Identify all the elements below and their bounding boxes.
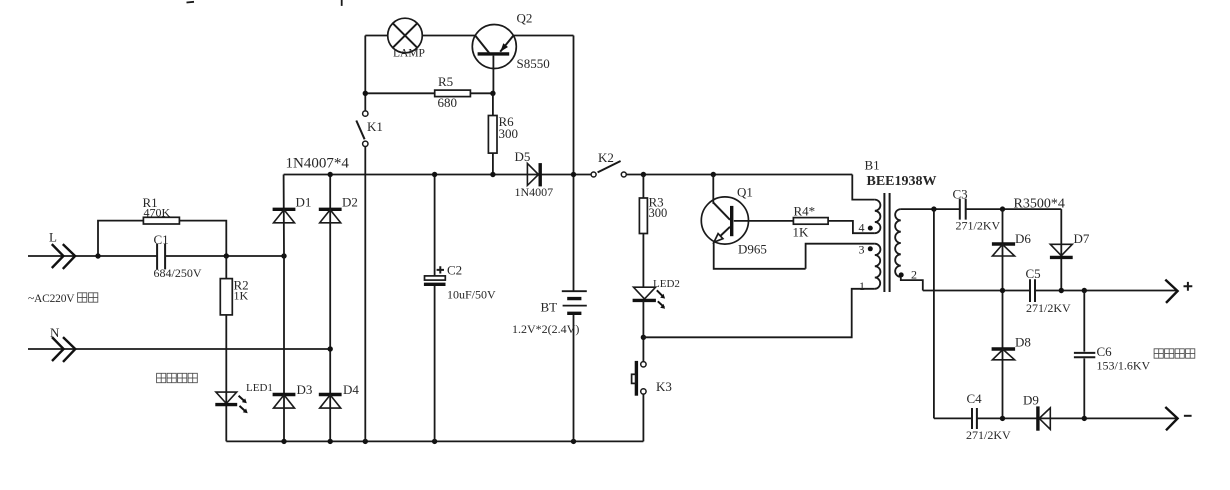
wire LED2 to K3 bbox=[642, 300, 644, 361]
svg-text:C6: C6 bbox=[1097, 344, 1113, 359]
node LED2 bottom junction bbox=[641, 335, 646, 340]
node left vertical top junction bbox=[931, 206, 936, 211]
wire right-left vertical bbox=[933, 209, 935, 418]
svg-text:3: 3 bbox=[859, 243, 865, 257]
svg-text:D5: D5 bbox=[515, 149, 531, 164]
diode D1 bbox=[273, 209, 296, 223]
svg-text:D6: D6 bbox=[1015, 231, 1031, 246]
node Q1 collector junction bbox=[711, 172, 716, 177]
stray mark top left bbox=[187, 1, 195, 4]
wire plus output line bbox=[923, 290, 1177, 292]
diode D5 bbox=[527, 163, 540, 186]
node R3 top junction bbox=[641, 172, 646, 177]
svg-text:1N4007*4: 1N4007*4 bbox=[286, 156, 350, 172]
node K1 bottom junction bbox=[363, 439, 368, 444]
svg-text:C3: C3 bbox=[953, 187, 968, 202]
diode D6 bbox=[992, 244, 1015, 256]
capacitor C6 bbox=[1074, 291, 1095, 419]
terminal L arrow bbox=[52, 244, 75, 269]
label minus sign bbox=[1184, 415, 1192, 417]
transformer B1 primary winding upper bbox=[875, 200, 881, 234]
resistor R4 bbox=[793, 218, 828, 225]
wire minus output line bbox=[934, 417, 1177, 419]
wire R1 branch bbox=[98, 221, 226, 256]
svg-text:D4: D4 bbox=[343, 382, 359, 397]
svg-text:153/1.6KV: 153/1.6KV bbox=[1097, 359, 1151, 373]
svg-text:470K: 470K bbox=[144, 206, 171, 220]
capacitor C2 bbox=[424, 175, 446, 442]
svg-text:C1: C1 bbox=[154, 232, 169, 247]
transformer B1 core bbox=[884, 193, 889, 292]
wire D7 vertical bbox=[1060, 209, 1062, 290]
node R6 bottom junction bbox=[490, 172, 495, 177]
capacitor C4 bbox=[972, 408, 977, 429]
wire K3 bottom bbox=[642, 394, 644, 441]
wire battery vertical bbox=[573, 36, 575, 442]
transformer B1 secondary winding bbox=[895, 209, 901, 277]
svg-text:C5: C5 bbox=[1026, 266, 1041, 281]
wire Q1 base to R4 bbox=[734, 220, 794, 222]
svg-text:271/2KV: 271/2KV bbox=[1026, 301, 1071, 315]
resistor R5 bbox=[435, 90, 471, 97]
label 高压输出 bbox=[1154, 349, 1195, 358]
wire K1 upper vertical bbox=[364, 36, 366, 112]
node R5 left junction bbox=[363, 91, 368, 96]
svg-text:1K: 1K bbox=[234, 289, 249, 303]
svg-text:BT: BT bbox=[541, 300, 558, 315]
svg-text:L: L bbox=[49, 230, 57, 245]
resistor R3 bbox=[639, 175, 647, 288]
wire D1-D3 vertical bbox=[283, 175, 285, 442]
svg-text:4: 4 bbox=[859, 221, 865, 235]
node D6 top junction bbox=[1000, 206, 1005, 211]
diode D7 bbox=[1050, 244, 1073, 257]
diode D4 bbox=[319, 395, 342, 409]
node D6 bottom junction bbox=[1000, 288, 1005, 293]
svg-text:1N4007: 1N4007 bbox=[515, 185, 554, 199]
node L-C1 junction bbox=[95, 253, 100, 258]
stray mark top middle bbox=[341, 0, 343, 6]
svg-text:BEE1938W: BEE1938W bbox=[867, 174, 937, 189]
wire D6-D8 vertical bbox=[1002, 209, 1004, 418]
node Q2 base junction bbox=[490, 91, 495, 96]
wire D2-D4 vertical bbox=[329, 175, 331, 442]
diode D3 bbox=[273, 395, 296, 409]
wire top lamp line bbox=[365, 35, 573, 37]
resistor R6 bbox=[488, 93, 497, 174]
svg-text:K1: K1 bbox=[367, 119, 383, 134]
wire R4 to pin4 bbox=[828, 221, 875, 233]
pin 2 polarity dot bbox=[899, 272, 904, 277]
svg-text:1K: 1K bbox=[793, 225, 810, 240]
capacitor C3 bbox=[960, 199, 966, 220]
resistor R2 bbox=[220, 279, 232, 315]
label 充电部分 bbox=[157, 373, 198, 382]
svg-text:S8550: S8550 bbox=[517, 56, 550, 71]
node C6 bottom junction bbox=[1082, 416, 1087, 421]
node C1-R2 junction bbox=[224, 253, 229, 258]
svg-text:D9: D9 bbox=[1023, 393, 1039, 408]
wire K1 lower vertical bbox=[364, 146, 366, 441]
svg-text:271/2KV: 271/2KV bbox=[956, 219, 1001, 233]
terminal plus arrow bbox=[1165, 280, 1177, 303]
node C2 bottom junction bbox=[432, 439, 437, 444]
wire N input line bbox=[28, 348, 330, 350]
svg-text:680: 680 bbox=[438, 95, 458, 110]
svg-text:Q1: Q1 bbox=[737, 185, 753, 200]
wire top bus corner to pin top bbox=[852, 175, 875, 200]
wire bottom bus bbox=[226, 440, 643, 442]
node L-D1 junction bbox=[281, 253, 286, 258]
svg-text:D8: D8 bbox=[1015, 335, 1031, 350]
pin 4 polarity dot bbox=[868, 226, 873, 231]
svg-text:LED2: LED2 bbox=[653, 278, 680, 290]
node C6 top junction bbox=[1082, 288, 1087, 293]
svg-text:R4*: R4* bbox=[794, 204, 816, 219]
pin 3 polarity dot bbox=[868, 246, 873, 251]
svg-text:K2: K2 bbox=[598, 150, 614, 165]
label plus sign bbox=[1184, 282, 1193, 291]
resistor R1 bbox=[143, 217, 179, 224]
wire L input line bbox=[28, 255, 284, 257]
svg-text:R5: R5 bbox=[438, 74, 453, 89]
LED LED2 bbox=[633, 287, 666, 309]
lamp LAMP bbox=[388, 18, 423, 53]
svg-text:K3: K3 bbox=[656, 379, 672, 394]
svg-text:1: 1 bbox=[859, 279, 865, 293]
wire R2-LED1 branch bbox=[225, 256, 227, 441]
svg-text:B1: B1 bbox=[865, 158, 880, 173]
svg-text:D2: D2 bbox=[342, 195, 358, 210]
svg-text:300: 300 bbox=[499, 126, 519, 141]
svg-text:N: N bbox=[50, 325, 60, 340]
wire R5 line bbox=[365, 92, 493, 94]
capacitor C1 bbox=[157, 244, 165, 270]
svg-text:LED1: LED1 bbox=[246, 382, 273, 394]
svg-text:300: 300 bbox=[649, 206, 668, 220]
svg-text:~AC220V: ~AC220V bbox=[28, 293, 75, 305]
transformer B1 primary winding lower bbox=[875, 244, 881, 289]
switch K2 bbox=[591, 161, 626, 177]
transistor Q1 bbox=[701, 175, 874, 269]
svg-text:C2: C2 bbox=[447, 263, 462, 278]
node D2 top junction bbox=[328, 172, 333, 177]
label ~AC220V输入 bbox=[28, 293, 98, 305]
svg-text:684/250V: 684/250V bbox=[154, 266, 202, 280]
svg-text:D965: D965 bbox=[738, 242, 767, 257]
svg-text:C4: C4 bbox=[967, 391, 983, 406]
svg-text:R3500*4: R3500*4 bbox=[1014, 197, 1065, 212]
switch K1 bbox=[356, 111, 368, 147]
node N-D2 junction bbox=[328, 346, 333, 351]
terminal minus arrow bbox=[1165, 407, 1177, 430]
svg-text:LAMP: LAMP bbox=[393, 48, 425, 60]
transistor Q2 bbox=[472, 25, 516, 94]
svg-text:D7: D7 bbox=[1074, 231, 1090, 246]
svg-text:10uF/50V: 10uF/50V bbox=[447, 288, 496, 302]
wire LED2 to transformer pin1 bbox=[643, 289, 874, 338]
diode D8 bbox=[992, 349, 1016, 360]
wire top rectifier bus bbox=[284, 174, 853, 176]
svg-text:D3: D3 bbox=[297, 382, 313, 397]
wire secondary top line bbox=[901, 208, 1062, 210]
switch K3 pushbutton bbox=[632, 361, 647, 396]
capacitor C5 bbox=[1030, 279, 1035, 302]
node BT bottom junction bbox=[571, 439, 576, 444]
terminal N arrow bbox=[52, 337, 75, 362]
node D7 bottom junction bbox=[1059, 288, 1064, 293]
node C2 top junction bbox=[432, 172, 437, 177]
battery BT bbox=[562, 291, 587, 313]
LED LED1 bbox=[215, 392, 247, 413]
diode D9 bbox=[1038, 406, 1050, 430]
svg-text:D1: D1 bbox=[296, 195, 312, 210]
svg-text:271/2KV: 271/2KV bbox=[966, 428, 1011, 442]
diode D2 bbox=[319, 209, 342, 223]
svg-text:1.2V*2(2.4V): 1.2V*2(2.4V) bbox=[512, 322, 579, 336]
node D8 bottom junction bbox=[1000, 416, 1005, 421]
svg-text:Q2: Q2 bbox=[517, 11, 533, 26]
node D4 bottom junction bbox=[328, 439, 333, 444]
node BT top junction bbox=[571, 172, 576, 177]
node D3 bottom junction bbox=[281, 439, 286, 444]
wire pin2 out bbox=[901, 277, 923, 291]
